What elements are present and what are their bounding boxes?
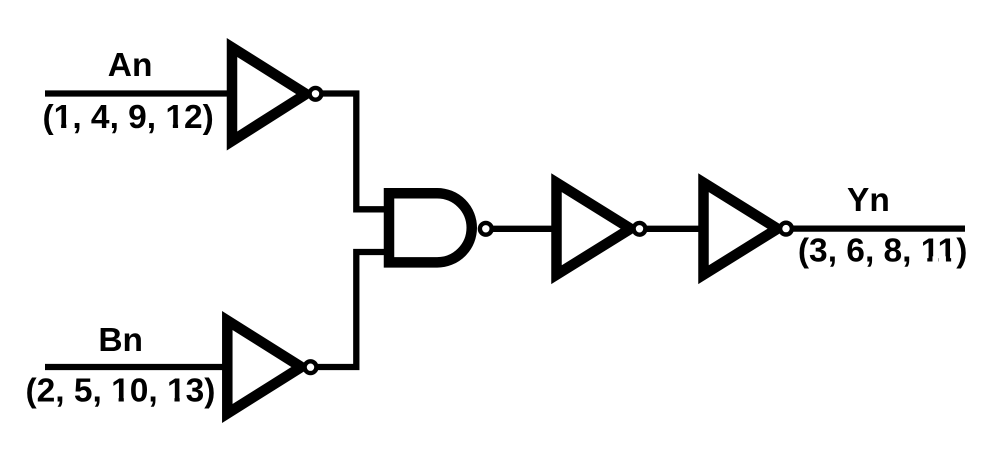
svg-text:Bn: Bn	[98, 322, 143, 359]
svg-text:Yn: Yn	[847, 182, 890, 219]
svg-text:(1, 4, 9, 12): (1, 4, 9, 12)	[43, 99, 214, 136]
svg-text:(3, 6, 8, 11): (3, 6, 8, 11)	[798, 233, 967, 270]
svg-text:An: An	[108, 47, 153, 84]
svg-text:(2, 5, 10, 13): (2, 5, 10, 13)	[26, 373, 216, 410]
